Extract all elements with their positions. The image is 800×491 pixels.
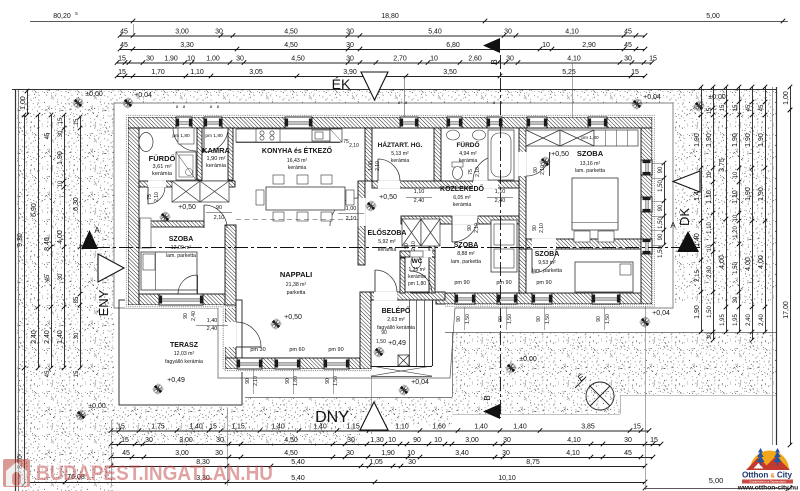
svg-text:1,40: 1,40 (513, 423, 527, 430)
svg-text:90: 90 (658, 166, 664, 173)
svg-text:17,00: 17,00 (783, 301, 790, 319)
window top wall fürdő2 a (447, 117, 462, 128)
svg-text:kerámia: kerámia (378, 247, 397, 253)
svg-text:fagyálló kerámia: fagyálló kerámia (165, 359, 203, 365)
dim row3 bottom (111, 457, 653, 459)
svg-text:1,95: 1,95 (733, 314, 739, 326)
svg-text:10: 10 (58, 180, 64, 187)
windows nappali bottom (terrace doors) (237, 358, 262, 369)
svg-text:1,10: 1,10 (414, 189, 425, 195)
door opening belépő wall (374, 292, 397, 301)
svg-text:15: 15 (633, 423, 641, 430)
fridge (330, 129, 342, 142)
svg-text:6,90: 6,90 (31, 203, 38, 217)
svg-text:1,90: 1,90 (758, 187, 765, 201)
window top wall szoba right 1 (527, 117, 547, 128)
dim right col 6 (765, 87, 767, 332)
svg-text:2,70: 2,70 (393, 55, 407, 62)
svg-text:90: 90 (596, 316, 602, 322)
svg-text:1,90: 1,90 (732, 133, 739, 147)
dim row4 bottom (111, 466, 645, 468)
svg-text:3,00: 3,00 (175, 28, 189, 35)
svg-text:90: 90 (533, 167, 539, 173)
wall exterior right (641, 128, 652, 304)
door fürdő2 (473, 156, 498, 181)
svg-text:pm 1,80: pm 1,80 (205, 133, 223, 139)
svg-text:+0,04: +0,04 (643, 94, 661, 101)
svg-text:1,90 m²: 1,90 m² (207, 156, 226, 162)
door corridor to szoba right-top (526, 152, 550, 176)
svg-text:30: 30 (215, 450, 223, 457)
svg-text:90: 90 (456, 316, 462, 322)
svg-text:10: 10 (388, 437, 396, 444)
svg-text:30: 30 (506, 55, 514, 62)
svg-text:8,75: 8,75 (526, 459, 540, 466)
svg-text:1,10: 1,10 (395, 423, 409, 430)
svg-text:5,92 m²: 5,92 m² (378, 239, 396, 245)
svg-text:1,50: 1,50 (707, 306, 713, 318)
svg-text:1,40: 1,40 (57, 330, 64, 344)
svg-text:90: 90 (532, 225, 538, 231)
svg-text:15: 15 (58, 117, 64, 124)
wall kamra/konyha (228, 128, 233, 180)
svg-text:4,50: 4,50 (284, 28, 298, 35)
svg-text:+0,50: +0,50 (284, 314, 302, 321)
wall exterior top (128, 117, 652, 128)
svg-text:A: A (94, 226, 100, 235)
svg-text:+0,50: +0,50 (551, 151, 569, 158)
compass north (586, 382, 614, 410)
svg-text:15: 15 (118, 55, 126, 62)
svg-text:DK: DK (677, 208, 692, 226)
svg-text:lam. parketta: lam. parketta (451, 259, 481, 265)
svg-text:10: 10 (407, 450, 415, 457)
svg-text:FÜRDŐ: FÜRDŐ (456, 140, 479, 149)
dim left col 6,30 (80, 117, 82, 368)
svg-text:5,40: 5,40 (291, 459, 305, 466)
svg-text:1,95: 1,95 (720, 314, 726, 326)
svg-text:90: 90 (498, 316, 504, 322)
wall nappali bottom (225, 358, 371, 369)
svg-text:2,40: 2,40 (759, 314, 765, 326)
wall wc top (400, 251, 435, 257)
svg-text:12,00 m²: 12,00 m² (171, 245, 192, 251)
svg-text:5,00: 5,00 (709, 476, 724, 485)
dim left col 9,30 (24, 115, 26, 484)
svg-text:45: 45 (120, 28, 128, 35)
svg-text:13,16 m²: 13,16 m² (580, 161, 601, 167)
svg-text:pm 1,80: pm 1,80 (581, 135, 599, 141)
svg-text:1,50: 1,50 (465, 314, 471, 324)
svg-text:1,90: 1,90 (694, 305, 701, 319)
svg-text:30: 30 (216, 437, 224, 444)
svg-text:4,10: 4,10 (567, 437, 581, 444)
site boundary top (12, 89, 776, 91)
svg-text:1,00: 1,00 (368, 161, 374, 171)
window top wall kitchen (285, 117, 312, 128)
wall fürdő2/szoba right (519, 128, 526, 249)
svg-text:pm 1,80: pm 1,80 (172, 133, 190, 139)
wall háztartási/fürdő2 (434, 128, 441, 181)
svg-text:15: 15 (209, 423, 217, 430)
dim row2 top (120, 49, 645, 51)
window right wall 3 (641, 239, 652, 254)
svg-text:30: 30 (707, 332, 713, 339)
svg-text:2,90: 2,90 (582, 42, 596, 49)
svg-text:80,20: 80,20 (53, 13, 71, 20)
wardrobe hall (X boxes) (172, 181, 200, 202)
svg-text:2,10: 2,10 (154, 192, 160, 202)
svg-text:1,05: 1,05 (369, 459, 383, 466)
marker B bottom flag (483, 404, 500, 419)
svg-text:4,00: 4,00 (57, 230, 64, 244)
dining table (266, 187, 345, 210)
svg-text:ÉK: ÉK (332, 76, 351, 92)
window top wall 1 (176, 117, 192, 128)
svg-text:ø: ø (210, 104, 213, 109)
svg-text:3,05: 3,05 (249, 69, 263, 76)
svg-text:8,40: 8,40 (44, 237, 51, 251)
svg-text:30: 30 (624, 55, 632, 62)
svg-text:15: 15 (74, 370, 80, 377)
svg-text:±0,00: ±0,00 (88, 403, 106, 410)
svg-text:HÁZTART. HG.: HÁZTART. HG. (378, 140, 423, 149)
dim right col 2 (713, 87, 715, 340)
svg-text:1,40: 1,40 (207, 318, 218, 324)
svg-text:2,10: 2,10 (375, 161, 381, 171)
dim right 1,00 17,00 (790, 87, 792, 110)
svg-text:pm 90: pm 90 (496, 280, 511, 286)
wc fixture (411, 256, 421, 269)
dim right col 4 (739, 87, 741, 332)
svg-text:KÖZLEKEDŐ: KÖZLEKEDŐ (440, 184, 485, 193)
svg-text:15: 15 (650, 437, 658, 444)
svg-text:90: 90 (325, 378, 331, 384)
bathroom1 fixtures (139, 133, 153, 152)
svg-text:10: 10 (733, 214, 739, 221)
svg-text:8,88 m²: 8,88 m² (457, 251, 475, 257)
svg-text:5,00: 5,00 (706, 13, 720, 20)
dim left col 8,40 (51, 115, 53, 368)
wall exterior left (128, 128, 139, 305)
svg-text:90: 90 (183, 313, 189, 319)
svg-text:45: 45 (624, 42, 632, 49)
dim extension verticals bottom (111, 420, 113, 486)
svg-text:BUDAPEST.INGATLAN.HU: BUDAPEST.INGATLAN.HU (36, 461, 273, 485)
window right wall 1 (641, 160, 652, 175)
svg-text:1,10: 1,10 (706, 190, 713, 204)
svg-text:kerámia: kerámia (288, 165, 307, 171)
svg-text:SZOBA: SZOBA (169, 236, 194, 243)
svg-text:10: 10 (430, 55, 438, 62)
logo budapest.ingatlan.hu watermark (3, 459, 273, 487)
svg-text:6,30: 6,30 (73, 197, 80, 211)
svg-text:3,90: 3,90 (343, 69, 357, 76)
section axis A horizontal (96, 247, 700, 249)
svg-text:30: 30 (346, 28, 354, 35)
door opening fürdő2 wall (473, 181, 498, 189)
svg-text:90: 90 (381, 330, 387, 336)
wall konyha/háztartási (365, 128, 372, 181)
svg-text:90: 90 (467, 225, 473, 231)
svg-text:2,10: 2,10 (411, 241, 417, 251)
window top wall 2 (204, 117, 222, 128)
svg-text:1,40: 1,40 (271, 423, 285, 430)
svg-text:45: 45 (122, 450, 130, 457)
svg-text:2,10: 2,10 (474, 223, 480, 233)
svg-text:90: 90 (413, 437, 421, 444)
wall fürdő1 bottom / hall (139, 181, 235, 187)
svg-text:B: B (483, 395, 492, 400)
window bottom-left block (159, 294, 203, 305)
svg-text:45: 45 (624, 28, 632, 35)
wall corridor top (háztart/fürdő2 bottom) (372, 181, 519, 188)
svg-text:3,00: 3,00 (175, 450, 189, 457)
svg-text:16,43 m²: 16,43 m² (287, 158, 308, 164)
dim right col 5 (752, 87, 754, 340)
svg-text:kerámia: kerámia (206, 163, 227, 169)
walkway boundary lines (445, 332, 776, 334)
svg-text:15: 15 (121, 437, 129, 444)
dim right col 3 (726, 87, 728, 332)
door fürdő1 to hall (148, 181, 166, 188)
wall nappali/szoba-left vertical (225, 225, 236, 305)
wall szoba8/szoba9 (519, 249, 526, 293)
svg-text:2,10: 2,10 (475, 167, 481, 177)
svg-text:B: B (490, 59, 499, 64)
closet szoba right top band (526, 130, 560, 146)
site boundary right (776, 87, 778, 445)
svg-text:1,50: 1,50 (507, 314, 513, 324)
door opening háztart wall (378, 181, 400, 189)
insulation dotted band exterior (125, 114, 655, 117)
svg-text:+0,50: +0,50 (379, 194, 397, 201)
svg-text:DNY: DNY (315, 409, 349, 426)
svg-text:45: 45 (746, 104, 752, 111)
window top wall szoba right 2 (588, 117, 607, 128)
dim row1 bottom (111, 430, 649, 432)
svg-text:2,15: 2,15 (695, 270, 701, 282)
svg-text:pm 1,80: pm 1,80 (408, 281, 426, 287)
svg-text:1,70: 1,70 (151, 69, 165, 76)
door kamra (204, 128, 228, 152)
dim extension verticals top (133, 24, 135, 36)
svg-text:2,10: 2,10 (214, 215, 225, 221)
svg-text:30: 30 (504, 28, 512, 35)
door opening wc wall (410, 251, 432, 258)
svg-text:KONYHA és ÉTKEZŐ: KONYHA és ÉTKEZŐ (262, 146, 333, 155)
svg-text:TERASZ: TERASZ (170, 342, 199, 349)
svg-text:15: 15 (118, 69, 126, 76)
door nappali-terasz (236, 322, 261, 347)
svg-text:2,40: 2,40 (31, 330, 38, 344)
wardrobe elöszoba X boxes (402, 219, 421, 246)
svg-text:90: 90 (658, 233, 664, 240)
svg-text:1,50: 1,50 (733, 262, 739, 274)
section axis B vertical (500, 55, 502, 418)
svg-text:10: 10 (187, 55, 195, 62)
svg-text:2,10: 2,10 (253, 376, 259, 386)
porch steps (409, 300, 411, 366)
svg-text:30: 30 (503, 437, 511, 444)
svg-text:pm 30: pm 30 (250, 347, 265, 353)
svg-text:30: 30 (236, 55, 244, 62)
svg-text:10: 10 (707, 171, 713, 178)
svg-text:90: 90 (285, 378, 291, 384)
svg-text:1,50: 1,50 (376, 339, 386, 345)
terasz outline (119, 300, 242, 405)
kitchen counter (236, 129, 340, 142)
svg-text:pm 90: pm 90 (454, 280, 469, 286)
dim right col near wall (664, 163, 666, 245)
svg-text:1,10: 1,10 (190, 69, 204, 76)
svg-text:2,40: 2,40 (191, 311, 197, 321)
svg-text:BELÉPŐ: BELÉPŐ (382, 306, 411, 315)
svg-text:pm 90: pm 90 (536, 280, 551, 286)
bed szoba bottom right (575, 262, 633, 292)
svg-text:15: 15 (707, 107, 713, 114)
svg-text:pm 90: pm 90 (328, 347, 343, 353)
bed szoba right top (572, 178, 618, 230)
svg-text:±0,00: ±0,00 (519, 356, 537, 363)
svg-text:1,10: 1,10 (495, 189, 506, 195)
svg-text:3,30: 3,30 (180, 42, 194, 49)
svg-text:3,85: 3,85 (581, 423, 595, 430)
svg-text:30: 30 (346, 450, 354, 457)
dim 5,00 bottom right (645, 488, 790, 490)
svg-text:15: 15 (720, 104, 726, 111)
svg-text:90: 90 (216, 205, 222, 211)
svg-text:3,75: 3,75 (719, 158, 726, 172)
wall elöszoba/konyha (358, 181, 365, 265)
svg-text:15: 15 (631, 69, 639, 76)
svg-text:10,10: 10,10 (498, 475, 516, 482)
svg-text:1,50: 1,50 (658, 246, 664, 258)
site boundary left (15, 89, 17, 491)
dim row1 top (120, 35, 645, 37)
marker B top flag (483, 38, 500, 53)
svg-text:A: A (670, 221, 676, 230)
svg-text:1,15: 1,15 (231, 423, 245, 430)
svg-text:10: 10 (733, 171, 739, 178)
svg-text:10: 10 (542, 42, 550, 49)
door szoba 8,88 (452, 216, 478, 242)
kitchen-nappali dashed boundary (236, 219, 358, 221)
svg-text:lam. parketta: lam. parketta (166, 253, 196, 259)
svg-text:lam. parketta: lam. parketta (532, 268, 562, 274)
svg-text:75: 75 (343, 139, 349, 145)
svg-text:Szakértelem a Tapasztalat: Szakértelem a Tapasztalat (749, 480, 785, 484)
belépő porch boundary (371, 366, 432, 368)
svg-text:ø: ø (493, 100, 496, 105)
svg-text:9,30: 9,30 (17, 233, 24, 247)
svg-text:1,10: 1,10 (732, 190, 739, 204)
kitchen sink (312, 130, 330, 141)
svg-text:1,50: 1,50 (658, 180, 664, 192)
svg-text:15: 15 (117, 423, 125, 430)
door belépő main entrance (375, 270, 397, 292)
svg-text:1,50: 1,50 (333, 376, 339, 386)
svg-text:1,90: 1,90 (745, 187, 752, 201)
svg-text:4,50: 4,50 (284, 450, 298, 457)
svg-text:5,13 m²: 5,13 m² (391, 151, 409, 157)
svg-text:pm 60: pm 60 (289, 347, 304, 353)
svg-text:90: 90 (536, 316, 542, 322)
svg-text:85: 85 (74, 296, 80, 303)
dim right col 1 (701, 87, 703, 332)
windows bottom-right block (455, 293, 475, 304)
svg-text:+0,04: +0,04 (652, 310, 670, 317)
door opening szoba-top wall (519, 152, 527, 176)
dim row5 bottom (30, 482, 645, 484)
svg-text:2,10: 2,10 (539, 223, 545, 233)
svg-text:3,61 m²: 3,61 m² (153, 164, 172, 170)
svg-text:30: 30 (733, 296, 739, 303)
wall nappali left (225, 305, 236, 369)
svg-text:30: 30 (74, 332, 80, 339)
svg-text:75: 75 (468, 169, 474, 175)
svg-text:2,80: 2,80 (707, 266, 713, 278)
wall fürdő1/kamra (197, 128, 202, 180)
svg-text:18,80: 18,80 (381, 13, 399, 20)
svg-text:lam. parketta: lam. parketta (575, 168, 605, 174)
door opening szoba-left bottom wall (178, 294, 197, 306)
svg-text:4,10: 4,10 (565, 28, 579, 35)
svg-text:4,50: 4,50 (291, 55, 305, 62)
door opening konyha-elöszoba wall (358, 198, 366, 226)
door fürdő1 (173, 128, 196, 151)
wall exterior bottom-right block (436, 293, 641, 304)
svg-text:1,50: 1,50 (605, 314, 611, 324)
entry steps diagonals (371, 366, 432, 376)
svg-text:3,50: 3,50 (443, 69, 457, 76)
svg-text:1,20: 1,20 (733, 226, 739, 238)
svg-text:6,80: 6,80 (446, 42, 460, 49)
svg-text:30: 30 (215, 28, 223, 35)
svg-text:30: 30 (408, 459, 416, 466)
door háztartási (378, 159, 400, 181)
svg-text:5,25: 5,25 (562, 69, 576, 76)
svg-text:1,90: 1,90 (706, 133, 713, 147)
svg-text:45: 45 (45, 274, 51, 281)
svg-text:ÉNY: ÉNY (96, 289, 111, 316)
svg-text:1,00: 1,00 (20, 96, 27, 110)
svg-text:2,40: 2,40 (746, 314, 752, 326)
svg-text:1,00: 1,00 (206, 55, 220, 62)
svg-text:Otthon & City: Otthon & City (742, 471, 792, 480)
svg-text:3,00: 3,00 (179, 437, 193, 444)
dim left 1,00 (27, 91, 29, 115)
svg-text:WC: WC (412, 258, 423, 265)
door opening szoba8 wall (452, 216, 478, 225)
door szoba-terasz arc overlay (178, 275, 197, 294)
svg-text:kerámia: kerámia (152, 171, 173, 177)
svg-text:SZOBA: SZOBA (577, 149, 604, 158)
window top wall fürdő2 b (487, 117, 502, 128)
svg-text:21,38 m²: 21,38 m² (286, 282, 307, 288)
closet szoba 8,88 (491, 220, 517, 272)
door opening szoba9 wall (532, 239, 556, 250)
svg-text:45: 45 (45, 370, 51, 377)
svg-text:+0,50: +0,50 (178, 204, 196, 211)
dim row4 top (117, 76, 645, 78)
svg-text:5,40: 5,40 (428, 28, 442, 35)
svg-text:SZOBA: SZOBA (454, 242, 479, 249)
svg-text:1,90: 1,90 (745, 133, 752, 147)
svg-text:1,40: 1,40 (189, 423, 203, 430)
svg-text:1,00: 1,00 (783, 91, 790, 105)
porch post (398, 355, 409, 366)
